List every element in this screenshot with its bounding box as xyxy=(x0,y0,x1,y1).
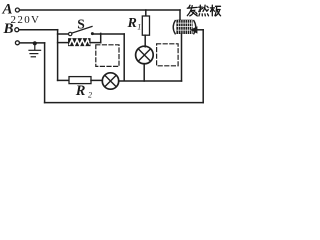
dashed box 2 xyxy=(157,44,179,66)
char 板 xyxy=(210,5,220,16)
lamp L1 xyxy=(136,46,154,64)
svg-text:1: 1 xyxy=(137,23,141,32)
switch S pivot xyxy=(69,32,72,35)
switch S contact xyxy=(91,32,94,35)
wire R2 to lamp xyxy=(91,79,102,81)
wire main to drop xyxy=(101,33,125,35)
wire resistor to junction xyxy=(90,42,101,44)
ground xyxy=(29,44,41,57)
svg-text:220V: 220V xyxy=(11,14,40,26)
lamp L2 xyxy=(102,73,118,89)
terminal A circle xyxy=(15,8,19,12)
wire plate bottom lead xyxy=(181,34,183,81)
wire lamp L1 bottom lead xyxy=(143,64,145,81)
wire stub to resistor R xyxy=(58,42,69,44)
plate left bracket xyxy=(173,21,175,34)
label 发热板 xyxy=(187,5,220,16)
wire E terminal xyxy=(20,42,45,44)
char 发 xyxy=(189,5,190,8)
resistor R2 xyxy=(69,77,91,84)
wire R1 top lead xyxy=(145,10,147,16)
resistor R1 box xyxy=(142,16,149,35)
svg-text:2: 2 xyxy=(88,90,92,99)
wire R1 to lamp xyxy=(144,35,146,47)
char 热 xyxy=(199,5,209,16)
wire drop x124 xyxy=(123,34,125,81)
plate right bracket xyxy=(194,21,196,34)
svg-text:S: S xyxy=(77,17,85,32)
switch S lever xyxy=(72,27,92,34)
heating plate body xyxy=(176,20,192,34)
wire bottom rail xyxy=(45,102,204,104)
wire B to bracket xyxy=(19,29,58,31)
plate terminal arrow xyxy=(190,26,197,33)
wire lamp row to plate drop xyxy=(119,80,182,82)
svg-text:R: R xyxy=(75,83,86,99)
wire top A rail xyxy=(20,9,180,11)
wire R2 branch start xyxy=(58,79,69,81)
resistor R (hatched box) xyxy=(69,39,90,46)
wire switch to junction xyxy=(92,33,100,35)
wire junction vertical xyxy=(100,33,102,42)
wire plate to right rail xyxy=(197,29,203,31)
terminal B circle xyxy=(15,28,19,32)
dashed box 1 xyxy=(96,45,119,67)
wire stub to switch xyxy=(58,33,69,35)
wire B bracket vertical xyxy=(57,30,59,81)
svg-text:R: R xyxy=(127,16,137,31)
node earth junction xyxy=(33,41,37,45)
terminal E circle xyxy=(15,41,19,45)
svg-text:B: B xyxy=(3,21,14,37)
wire left vertical (earth to bottom rail) xyxy=(44,43,46,103)
wire plate top feed xyxy=(179,10,181,20)
wire right vertical xyxy=(202,30,204,103)
